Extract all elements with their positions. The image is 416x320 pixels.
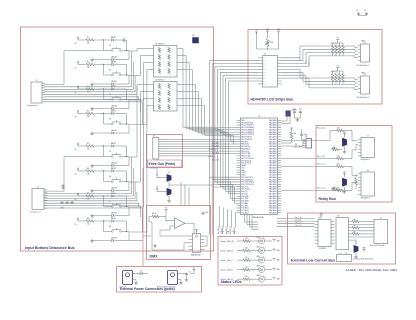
group box: Input Buttons Debounce Bus xyxy=(21,27,214,251)
svg-text:PB3 (MISO): PB3 (MISO) xyxy=(241,148,250,150)
gnd ext power 2 xyxy=(179,280,183,285)
wire LCD header left xyxy=(223,74,258,76)
svg-text:J2: J2 xyxy=(37,187,39,189)
wire gun bus row xyxy=(214,145,237,147)
cap C7 xyxy=(300,129,307,140)
wire debounce output bus xyxy=(181,70,214,131)
wire J2 pin to button cell xyxy=(45,182,136,198)
svg-text:100n: 100n xyxy=(304,134,308,136)
svg-text:C6: C6 xyxy=(364,10,366,12)
wire extra gun to bus xyxy=(166,155,214,157)
relay connector J8 Relay Bus 2 xyxy=(358,170,375,200)
button cell S3 xyxy=(75,85,130,110)
button cell S8 xyxy=(75,217,144,242)
svg-text:LED3: LED3 xyxy=(256,256,260,258)
wire input bus vertical xyxy=(214,135,237,144)
resistor pack RN2 xyxy=(331,38,344,56)
wire input bus vertical xyxy=(214,126,237,128)
svg-text:ext gun bus 2: ext gun bus 2 xyxy=(30,211,41,214)
wire J1 pin to button cell xyxy=(45,97,139,100)
svg-text:Rel_1_A_1: Rel_1_A_1 xyxy=(317,127,325,130)
status LED row D11 xyxy=(221,246,281,254)
svg-text:Status_LED_B: Status_LED_B xyxy=(221,249,234,252)
svg-text:U1 74HC14: U1 74HC14 xyxy=(155,43,164,45)
svg-text:Status_LED_E: Status_LED_E xyxy=(221,278,234,281)
svg-text:U7: U7 xyxy=(337,215,339,217)
wire dmx bus vertical xyxy=(214,182,237,199)
wire input bus vertical xyxy=(214,131,237,135)
svg-text:J4: J4 xyxy=(364,42,366,44)
transistor Q2 xyxy=(332,131,347,153)
svg-text:PE6 (T3/INT6): PE6 (T3/INT6) xyxy=(241,137,252,139)
svg-text:PB2 (MOSI): PB2 (MOSI) xyxy=(241,146,250,148)
svg-text:Relay Bus 2: Relay Bus 2 xyxy=(361,198,371,200)
wire J2 pin to button cell xyxy=(45,168,134,196)
svg-text:10k: 10k xyxy=(353,231,356,233)
svg-text:R5: R5 xyxy=(87,143,89,145)
wire J1 pin to button cell xyxy=(45,76,136,92)
svg-text:100n: 100n xyxy=(205,212,209,214)
transistor Q3 xyxy=(332,171,358,193)
wire input bus vertical xyxy=(214,132,237,137)
label: External Power Connectors (proto) xyxy=(120,287,175,291)
svg-text:R1: R1 xyxy=(87,37,89,39)
status LED row D14 xyxy=(221,275,281,283)
svg-text:C5: C5 xyxy=(356,10,358,12)
wire LCD to strip bus 1 xyxy=(282,53,358,64)
wire debounce output bus xyxy=(181,106,214,136)
wire extra gun to bus xyxy=(166,148,214,150)
svg-text:10k: 10k xyxy=(87,174,90,176)
label: Input Buttons Debounce Bus xyxy=(25,246,75,250)
svg-text:RESET: RESET xyxy=(241,165,246,167)
svg-text:LCD Strip Bus 2: LCD Strip Bus 2 xyxy=(356,96,369,99)
wire J2 pin to button cell xyxy=(45,192,137,201)
wire debounce output bus xyxy=(181,85,214,132)
svg-text:DC In/Out XXX Power Bus: DC In/Out XXX Power Bus xyxy=(353,258,373,261)
dmx power flag xyxy=(164,208,167,214)
svg-text:LED1: LED1 xyxy=(256,237,260,239)
svg-text:PD6 (T1): PD6 (T1) xyxy=(241,191,248,193)
wire J2 pin 1 up xyxy=(45,157,104,192)
svg-text:Gun_C_2: Gun_C_2 xyxy=(208,156,215,158)
title text xyxy=(346,268,397,272)
wire button cell to U1 input xyxy=(129,56,150,76)
svg-text:S5: S5 xyxy=(109,151,111,153)
connector J9 Extra GPIO xyxy=(370,218,388,248)
wire debounce output bus xyxy=(181,92,214,133)
group box: DMX xyxy=(147,206,211,260)
svg-text:S4: S4 xyxy=(109,119,111,121)
wire debounce output bus xyxy=(181,49,214,128)
svg-text:PG0 (WR): PG0 (WR) xyxy=(241,196,249,198)
svg-text:150: 150 xyxy=(245,248,248,250)
net label xyxy=(212,142,219,145)
wire LCD to strip bus 2 xyxy=(282,75,358,86)
svg-text:10k: 10k xyxy=(87,116,90,118)
connector J10 DC power xyxy=(337,248,374,262)
relay row R22 xyxy=(317,164,352,168)
svg-text:PE5 (OC3C/INT5): PE5 (OC3C/INT5) xyxy=(241,134,254,136)
wire J1 pin to button cell xyxy=(45,51,132,87)
wire LCD header left xyxy=(210,60,259,62)
svg-text:1N4148: 1N4148 xyxy=(111,105,117,107)
svg-text:S2: S2 xyxy=(109,70,111,72)
svg-text:Gun_B_2: Gun_B_2 xyxy=(210,149,217,151)
svg-text:LED5: LED5 xyxy=(256,275,260,277)
svg-text:4k7: 4k7 xyxy=(337,128,340,130)
wire input bus vertical xyxy=(214,130,237,133)
wire J2 pin to button cell xyxy=(45,157,132,194)
svg-text:PG1 (RD): PG1 (RD) xyxy=(241,198,248,200)
wire LCD to strip bus 2 xyxy=(282,72,358,83)
wire MCU net down xyxy=(225,209,228,234)
svg-text:o o: o o xyxy=(263,75,265,77)
wire extra gun to bus xyxy=(166,141,214,143)
svg-text:ext gun bus 1: ext gun bus 1 xyxy=(27,104,38,107)
wire debounce output bus xyxy=(181,63,214,130)
wire debounce output bus xyxy=(181,56,214,129)
net label xyxy=(208,156,215,158)
wire MCU net down xyxy=(229,211,232,235)
svg-text:LED2: LED2 xyxy=(256,246,260,248)
connector J4 LCD Strip Bus 1 xyxy=(356,41,370,67)
button cell S2 xyxy=(75,60,130,85)
svg-text:1N4148: 1N4148 xyxy=(111,187,117,189)
svg-text:J9: J9 xyxy=(380,218,382,220)
wire gun bus row xyxy=(214,148,237,150)
svg-text:J8: J8 xyxy=(367,170,369,172)
svg-text:J11: J11 xyxy=(153,135,156,137)
svg-text:Input Buttons Debounce Bus: Input Buttons Debounce Bus xyxy=(25,246,75,250)
svg-text:o o: o o xyxy=(263,63,265,65)
wire J1 pin to button cell xyxy=(45,102,143,125)
gnd ext power 1 xyxy=(134,280,138,285)
svg-text:R8: R8 xyxy=(87,218,89,220)
wires relay rows to connectors xyxy=(352,131,358,191)
wires into relay box xyxy=(281,131,330,191)
cap C9 xyxy=(184,272,191,282)
wire button cell to U2 input xyxy=(129,106,150,233)
wire J2 pin to button cell xyxy=(45,206,141,217)
wire MCU to ISP xyxy=(281,140,306,146)
power flags HD44780 xyxy=(255,29,281,49)
wire extra gun to bus xyxy=(166,152,214,154)
svg-text:PB1 (SCK): PB1 (SCK) xyxy=(241,144,249,146)
wire LCD bus vertical xyxy=(226,78,237,191)
wire dmx bus vertical xyxy=(214,185,237,201)
svg-text:DMX: DMX xyxy=(150,255,159,259)
wire button cell to U2 input xyxy=(129,85,150,158)
svg-text:HD44780 LCD Strips Bus: HD44780 LCD Strips Bus xyxy=(251,98,294,102)
wire LCD bus vertical xyxy=(220,72,236,186)
svg-text:o o: o o xyxy=(263,66,265,68)
svg-text:LED4: LED4 xyxy=(256,265,260,267)
wire LCD header left xyxy=(220,71,258,73)
svg-text:150: 150 xyxy=(245,257,248,259)
svg-text:1N4148: 1N4148 xyxy=(111,130,117,132)
power flag LCB xyxy=(319,213,322,220)
svg-text:LCD Strip Bus 1: LCD Strip Bus 1 xyxy=(356,64,369,67)
svg-text:J5: J5 xyxy=(364,74,366,76)
wire J2 pin to button cell xyxy=(45,208,143,232)
connector J1 ext gun bus 1 xyxy=(27,80,45,107)
svg-text:S7: S7 xyxy=(109,201,111,203)
svg-text:ISP: ISP xyxy=(305,136,308,138)
debounce IC U1 74HC14 xyxy=(150,43,181,77)
transistor Q6 xyxy=(156,185,171,202)
svg-text:Rel_1_C_1: Rel_1_C_1 xyxy=(317,164,326,166)
debounce IC U2 74HC14 xyxy=(150,79,181,111)
button cell S1 xyxy=(75,36,130,61)
svg-text:1N4148: 1N4148 xyxy=(111,162,117,164)
group box: Extra Gun (Proto) xyxy=(147,135,183,168)
svg-text:R4: R4 xyxy=(87,110,89,112)
transistor Q5 xyxy=(156,171,214,185)
svg-text:S1: S1 xyxy=(109,45,111,47)
group box: HD44780 LCD Strips Bus xyxy=(248,30,382,105)
svg-text:10k: 10k xyxy=(87,67,90,69)
svg-text:4x22: 4x22 xyxy=(331,71,335,73)
dmx gnd xyxy=(153,244,157,247)
label: HD44780 LCD Strips Bus xyxy=(251,98,294,102)
status LED row D12 xyxy=(221,256,281,264)
relay connector J7 Relay Bus 1 xyxy=(358,136,375,162)
diode D9 xyxy=(138,271,148,275)
svg-text:o o: o o xyxy=(263,81,265,83)
wire extra gun to bus xyxy=(166,143,214,145)
net label xyxy=(212,145,219,148)
svg-text:S6: S6 xyxy=(109,176,111,178)
svg-text:Relay Bus: Relay Bus xyxy=(319,197,336,201)
svg-text:10k: 10k xyxy=(271,42,274,44)
op-amp U8 xyxy=(165,214,194,229)
svg-text:Relay Bus 1: Relay Bus 1 xyxy=(361,159,371,161)
power flag mid xyxy=(122,39,125,43)
MCU U5 ATmega128 xyxy=(237,116,282,219)
svg-text:4x22: 4x22 xyxy=(331,43,335,45)
svg-text:10k: 10k xyxy=(353,219,356,221)
barrel connector J12 xyxy=(119,271,138,289)
button cell S6 xyxy=(75,167,130,192)
svg-text:150: 150 xyxy=(245,238,248,240)
wire J1 pin to button cell xyxy=(45,62,134,89)
power flag ext xyxy=(190,268,196,274)
driver IC U6 ULN2803 xyxy=(315,217,335,250)
svg-text:PE0 (RXD0/PDI): PE0 (RXD0/PDI) xyxy=(241,122,253,124)
status LED row D13 xyxy=(221,265,281,273)
wire button cell to U2 input xyxy=(129,99,150,208)
svg-text:PD4 (IC1): PD4 (IC1) xyxy=(241,186,249,188)
svg-text:PG4 (TOSC1): PG4 (TOSC1) xyxy=(241,163,251,165)
wire J1 pin 1 up xyxy=(45,51,104,85)
wire gun bus row xyxy=(214,138,237,140)
svg-text:o o: o o xyxy=(263,72,265,74)
svg-text:12v Power: 12v Power xyxy=(119,287,127,289)
wire gun bus row xyxy=(214,143,237,145)
misc component JP1 xyxy=(192,35,199,43)
wire LCD bus vertical xyxy=(215,67,237,182)
svg-text:CL2: CL2 xyxy=(293,109,296,111)
wire MCU bottom to status area xyxy=(245,215,259,230)
svg-text:1N4148: 1N4148 xyxy=(111,237,117,239)
svg-text:RN 1k: RN 1k xyxy=(152,213,157,215)
svg-text:o o: o o xyxy=(263,61,265,63)
wire LCD header left xyxy=(212,63,258,65)
wire gun bus row xyxy=(214,141,237,143)
svg-text:Status_LED_C: Status_LED_C xyxy=(221,259,234,262)
svg-text:PB4 (OC0): PB4 (OC0) xyxy=(241,151,249,153)
resistor pack RN3 xyxy=(331,66,344,84)
status LED row D10 xyxy=(221,237,281,245)
button cell S4 xyxy=(75,109,130,134)
wire extra gun to bus xyxy=(166,150,214,152)
wires MCU to LCB box xyxy=(277,216,315,227)
wire MCU net down xyxy=(221,208,224,235)
svg-text:o o: o o xyxy=(263,78,265,80)
label ext gun bus 2 xyxy=(30,211,41,214)
wire J1 pin to button cell xyxy=(45,99,141,111)
svg-text:o o: o o xyxy=(263,58,265,60)
svg-text:10k: 10k xyxy=(353,225,356,227)
svg-text:PE4 (OC3B/INT4): PE4 (OC3B/INT4) xyxy=(241,132,254,134)
wire J1 pin to button cell xyxy=(45,86,137,94)
wire LCD header left xyxy=(228,80,258,82)
svg-text:Status_LED_A: Status_LED_A xyxy=(221,240,234,243)
svg-text:R7: R7 xyxy=(87,193,89,195)
wire gun bus row xyxy=(214,150,237,152)
svg-text:10k: 10k xyxy=(87,43,90,45)
svg-text:1N4148: 1N4148 xyxy=(111,212,117,214)
svg-text:10k: 10k xyxy=(87,149,90,151)
svg-text:Gun_A_3: Gun_A_3 xyxy=(212,145,219,148)
connector J11 extra gun xyxy=(153,135,167,159)
svg-text:PB0 (SS): PB0 (SS) xyxy=(241,141,248,143)
svg-text:Extra Gun (Proto): Extra Gun (Proto) xyxy=(149,162,176,166)
wire LCD to strip bus 2 xyxy=(282,69,358,79)
relay row R23 xyxy=(317,188,352,192)
svg-text:Status_LED_D: Status_LED_D xyxy=(221,268,234,271)
wire DMX nets up xyxy=(181,182,189,206)
wire LCD header left xyxy=(218,68,258,70)
net label xyxy=(212,153,219,155)
svg-text:10k: 10k xyxy=(87,199,90,201)
wire input bus vertical xyxy=(214,128,237,129)
svg-text:J1: J1 xyxy=(36,80,38,82)
svg-text:4k7: 4k7 xyxy=(337,156,340,158)
label: DMX xyxy=(150,255,159,259)
svg-text:U2 74HC14: U2 74HC14 xyxy=(155,79,164,81)
button cell S5 xyxy=(75,142,130,167)
svg-text:1N4148: 1N4148 xyxy=(111,81,117,83)
svg-text:1N4148: 1N4148 xyxy=(111,56,117,58)
label: External Low Current Bus xyxy=(291,258,335,262)
svg-text:4k7: 4k7 xyxy=(337,164,340,166)
decoupling caps top right xyxy=(356,10,368,16)
gnd flags near J2 xyxy=(60,184,74,210)
svg-text:C9: C9 xyxy=(189,272,191,274)
power flags above status box xyxy=(220,230,235,234)
button cell S7 xyxy=(75,192,130,217)
contrast trimpot RV1 xyxy=(257,39,279,50)
wire LCD to strip bus 1 xyxy=(282,56,358,67)
wire MCU net down xyxy=(217,206,220,234)
svg-text:PD0 (SCL/INT0): PD0 (SCL/INT0) xyxy=(241,177,253,179)
wire debounce output bus xyxy=(181,99,214,135)
svg-text:150: 150 xyxy=(245,276,248,278)
wire MCU net down xyxy=(233,212,236,234)
svg-text:Rel_1_B_1: Rel_1_B_1 xyxy=(317,156,325,158)
svg-text:PD7 (T2): PD7 (T2) xyxy=(241,193,248,195)
wire LCD header left xyxy=(215,66,258,68)
dmx cap C8 xyxy=(202,212,209,216)
dmx resistor R18 xyxy=(149,213,166,222)
driver IC U7 xyxy=(336,215,352,249)
svg-text:PB7 (OC2/OC1C): PB7 (OC2/OC1C) xyxy=(241,158,254,160)
label: Extra Gun (Proto) xyxy=(149,162,176,166)
svg-text:Rel_1_D_1: Rel_1_D_1 xyxy=(317,188,326,190)
svg-text:J3: J3 xyxy=(264,53,266,55)
svg-text:R2: R2 xyxy=(87,61,89,63)
svg-text:150: 150 xyxy=(245,267,248,269)
label: Status LEDs xyxy=(221,280,242,284)
LCD header J3 xyxy=(258,53,282,87)
wire J2 pin to button cell xyxy=(45,203,139,207)
max485 U9 xyxy=(189,234,205,257)
svg-text:PD3 (TXD1/INT3): PD3 (TXD1/INT3) xyxy=(241,184,254,186)
wire button cell to U2 input xyxy=(129,92,150,183)
red bus line xyxy=(142,168,144,266)
svg-text:R6: R6 xyxy=(87,168,89,170)
svg-text:S8: S8 xyxy=(109,226,111,228)
barrel connector J13 xyxy=(157,271,184,289)
svg-text:10k: 10k xyxy=(294,133,297,135)
wire LCD to strip bus 2 xyxy=(282,78,358,90)
svg-text:PD5 (XCK1): PD5 (XCK1) xyxy=(241,189,250,191)
wire LCD bus vertical xyxy=(218,69,237,184)
svg-text:U5: U5 xyxy=(258,116,260,118)
svg-text:o o: o o xyxy=(263,84,265,86)
wire input bus vertical xyxy=(214,133,237,139)
crystal Q1 16MHz xyxy=(281,109,302,124)
wire LCD header left xyxy=(226,77,258,79)
svg-text:MEGA128-A: MEGA128-A xyxy=(253,216,264,219)
svg-text:10k: 10k xyxy=(87,224,90,226)
wire LCD bus vertical xyxy=(210,61,237,235)
wire button cell to U1 input xyxy=(129,49,150,52)
connector J5 LCD Strip Bus 2 xyxy=(356,73,370,99)
svg-text:U6: U6 xyxy=(318,217,320,219)
svg-text:PG3 (TOSC2): PG3 (TOSC2) xyxy=(241,160,251,162)
svg-text:o o: o o xyxy=(263,69,265,71)
svg-text:D9: D9 xyxy=(140,271,142,273)
svg-text:ULN2803: ULN2803 xyxy=(319,248,326,250)
svg-text:Gun_C_3: Gun_C_3 xyxy=(212,160,219,162)
svg-text:CL3: CL3 xyxy=(299,109,302,111)
wire extra gun to bus xyxy=(166,138,214,140)
net label xyxy=(212,160,219,162)
wire LCD to strip bus 1 xyxy=(282,49,358,60)
wire LCD bus vertical xyxy=(212,64,236,235)
svg-text:Extra GPIO Bus A: Extra GPIO Bus A xyxy=(370,244,385,247)
svg-text:External Low Current Bus: External Low Current Bus xyxy=(291,258,335,262)
group box: External Power Connectors (proto) xyxy=(117,267,202,293)
wire button cell to U1 input xyxy=(129,63,150,101)
svg-text:PB6 (OC1B): PB6 (OC1B) xyxy=(241,156,250,158)
svg-text:ISP: ISP xyxy=(295,144,297,146)
svg-text:J7: J7 xyxy=(367,136,369,138)
svg-text:JP1: JP1 xyxy=(192,35,195,37)
